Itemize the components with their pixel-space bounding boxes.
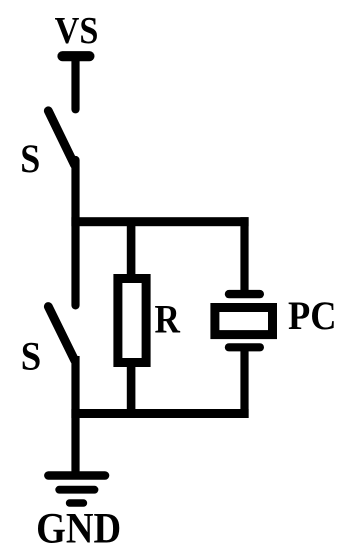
wire right drop to PC <box>240 217 248 294</box>
wire resistor top lead <box>127 226 136 278</box>
switch S1 arm <box>48 111 74 165</box>
ground bar top <box>44 471 109 480</box>
resistor R body <box>118 279 146 363</box>
svg-text:S: S <box>21 335 41 379</box>
svg-text:VS: VS <box>55 9 99 51</box>
wire switch S2 to ground <box>71 356 79 475</box>
svg-text:R: R <box>155 297 181 342</box>
svg-text:PC: PC <box>288 294 337 338</box>
svg-text:GND: GND <box>36 504 121 550</box>
piezo PC top plate <box>225 290 264 298</box>
wire VS terminal to switch S1 <box>71 56 79 109</box>
wire switch S1 to switch S2 (through top bus junction) <box>71 160 79 305</box>
piezo PC bottom plate <box>225 343 264 351</box>
svg-text:S: S <box>20 137 40 181</box>
wire PC bottom lead <box>240 347 248 418</box>
piezo PC body <box>215 308 273 335</box>
terminal bar VS <box>57 51 94 61</box>
switch S2 arm <box>48 307 75 361</box>
wire resistor bottom lead <box>127 363 136 413</box>
wire bottom bus horizontal <box>71 409 248 418</box>
ground bar middle <box>55 486 98 494</box>
ground bar bottom <box>66 499 87 506</box>
wire top bus horizontal <box>71 217 248 226</box>
